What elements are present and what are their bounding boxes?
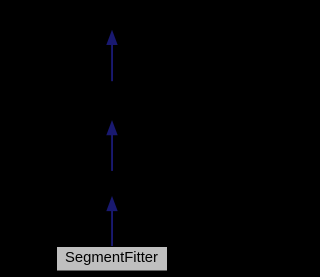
svg-text:SegmentFitter: SegmentFitter: [65, 250, 158, 266]
inheritance arrow 2 (middle): [106, 120, 117, 171]
inheritance arrow 3 (bottom): [106, 196, 117, 247]
node SegmentFitter (current class box): [57, 247, 168, 272]
inheritance arrow 1 (top): [106, 30, 117, 81]
inheritance diagram canvas: [0, 0, 224, 277]
